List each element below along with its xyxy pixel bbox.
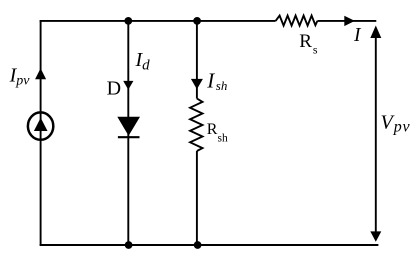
svg-text:Ish: Ish [206, 68, 227, 93]
svg-text:I: I [353, 25, 362, 46]
svg-text:Rs: Rs [299, 31, 318, 57]
svg-text:Id: Id [135, 49, 151, 74]
svg-text:Ipv: Ipv [9, 65, 31, 89]
svg-text:D: D [107, 77, 121, 99]
svg-text:Rsh: Rsh [207, 121, 228, 144]
svg-text:Vpv: Vpv [381, 112, 411, 136]
